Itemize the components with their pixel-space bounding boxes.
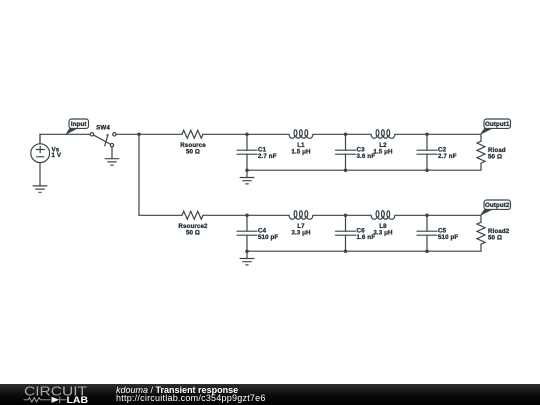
svg-text:510 pF: 510 pF xyxy=(438,234,458,241)
svg-text:50 Ω: 50 Ω xyxy=(488,153,502,160)
resistor Rload2 xyxy=(477,215,510,251)
svg-text:510 pF: 510 pF xyxy=(258,234,278,241)
svg-text:1.5 μH: 1.5 μH xyxy=(291,149,311,156)
svg-text:50 Ω: 50 Ω xyxy=(488,234,502,241)
svg-text:50 Ω: 50 Ω xyxy=(186,149,200,156)
wire bottom rail row 2 xyxy=(247,250,481,252)
wire Rsource to C1 xyxy=(203,133,289,135)
svg-text:Output1: Output1 xyxy=(485,121,510,128)
junction C2 top xyxy=(425,133,429,137)
svg-text:2.7 nF: 2.7 nF xyxy=(258,153,277,160)
inductor L1 xyxy=(289,130,313,156)
wire L2 to Rload xyxy=(395,133,481,135)
junction C4 bottom xyxy=(245,249,249,253)
wire bottom rail row 1 xyxy=(247,169,481,171)
svg-text:2.7 nF: 2.7 nF xyxy=(438,153,457,160)
svg-text:Output2: Output2 xyxy=(485,202,510,209)
capacitor C5 xyxy=(417,215,458,251)
switch SW4 xyxy=(90,124,116,147)
wire L1 to L2 xyxy=(313,133,371,135)
resistor Rsource xyxy=(180,130,206,155)
junction node A xyxy=(137,133,141,137)
ground (below Vs) xyxy=(33,186,47,192)
wire Vs to SW4 xyxy=(40,134,90,144)
junction C6 bottom xyxy=(344,249,348,253)
junction C6 top xyxy=(344,214,348,218)
svg-text:LAB: LAB xyxy=(67,395,89,405)
svg-text:3.3 μH: 3.3 μH xyxy=(291,230,311,237)
capacitor C6 xyxy=(336,215,376,251)
inductor L8 xyxy=(371,211,395,237)
wire SW4 lower throw to ground xyxy=(111,147,113,159)
ground (below SW4) xyxy=(105,159,119,165)
ground (below C4) xyxy=(240,259,254,265)
ground (below C1) xyxy=(240,178,254,184)
svg-text:Input: Input xyxy=(71,121,87,128)
capacitor C2 xyxy=(417,134,457,170)
svg-text:SW4: SW4 xyxy=(96,124,110,131)
junction C3 bottom xyxy=(344,168,348,172)
node flag Output1 xyxy=(481,119,511,134)
footer bar xyxy=(0,384,540,405)
wire L7 to L8 xyxy=(313,214,371,216)
capacitor C4 xyxy=(237,215,278,251)
wire C4 bottom to ground xyxy=(246,251,248,258)
junction C5 bottom xyxy=(425,249,429,253)
resistor Rsource2 xyxy=(178,211,208,236)
resistor Rload xyxy=(477,134,506,170)
svg-text:3.3 μH: 3.3 μH xyxy=(373,230,393,237)
node flag Input xyxy=(67,119,89,134)
junction C5 top xyxy=(425,214,429,218)
wire SW4 to node xyxy=(116,133,182,135)
wire C1 bottom to ground xyxy=(246,170,248,177)
capacitor C3 xyxy=(336,134,376,170)
inductor L7 xyxy=(289,211,313,237)
svg-text:1 V: 1 V xyxy=(52,152,62,159)
junction C1 top xyxy=(245,133,249,137)
wire Rsource2 to C4 xyxy=(203,214,289,216)
node flag Output2 xyxy=(481,200,511,215)
junction C4 top xyxy=(245,214,249,218)
svg-text:50 Ω: 50 Ω xyxy=(186,230,200,237)
junction C2 bottom xyxy=(425,168,429,172)
svg-text:1.5 μH: 1.5 μH xyxy=(373,149,393,156)
voltage source Vs xyxy=(31,134,62,186)
junction C1 bottom xyxy=(245,168,249,172)
inductor L2 xyxy=(371,130,395,156)
junction C3 top xyxy=(344,133,348,137)
wire node A down to row 2 xyxy=(139,134,182,215)
wire L8 to Rload2 xyxy=(395,214,481,216)
capacitor C1 xyxy=(237,134,277,170)
